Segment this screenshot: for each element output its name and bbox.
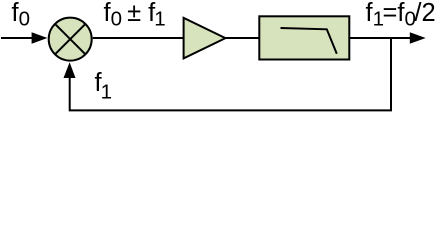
- amplifier A1 triangle: [184, 18, 226, 59]
- wire amplifier to filter: [225, 37, 259, 39]
- wire filter to output: [349, 37, 411, 39]
- wire input: [1, 37, 34, 39]
- mixer M1 circle: [49, 18, 92, 61]
- filter F1 low-pass response curve: [281, 28, 337, 54]
- arrowhead input: [32, 32, 48, 44]
- wire feedback down-bottom-up: [70, 38, 391, 110]
- mixer M1 X diagonal 1: [55, 24, 85, 54]
- wire mixer to amplifier: [93, 37, 184, 39]
- arrowhead feedback into mixer: [64, 62, 76, 78]
- mixer M1 X diagonal 2: [55, 24, 85, 54]
- filter F1 box: [259, 16, 349, 59]
- arrowhead output: [410, 32, 426, 44]
